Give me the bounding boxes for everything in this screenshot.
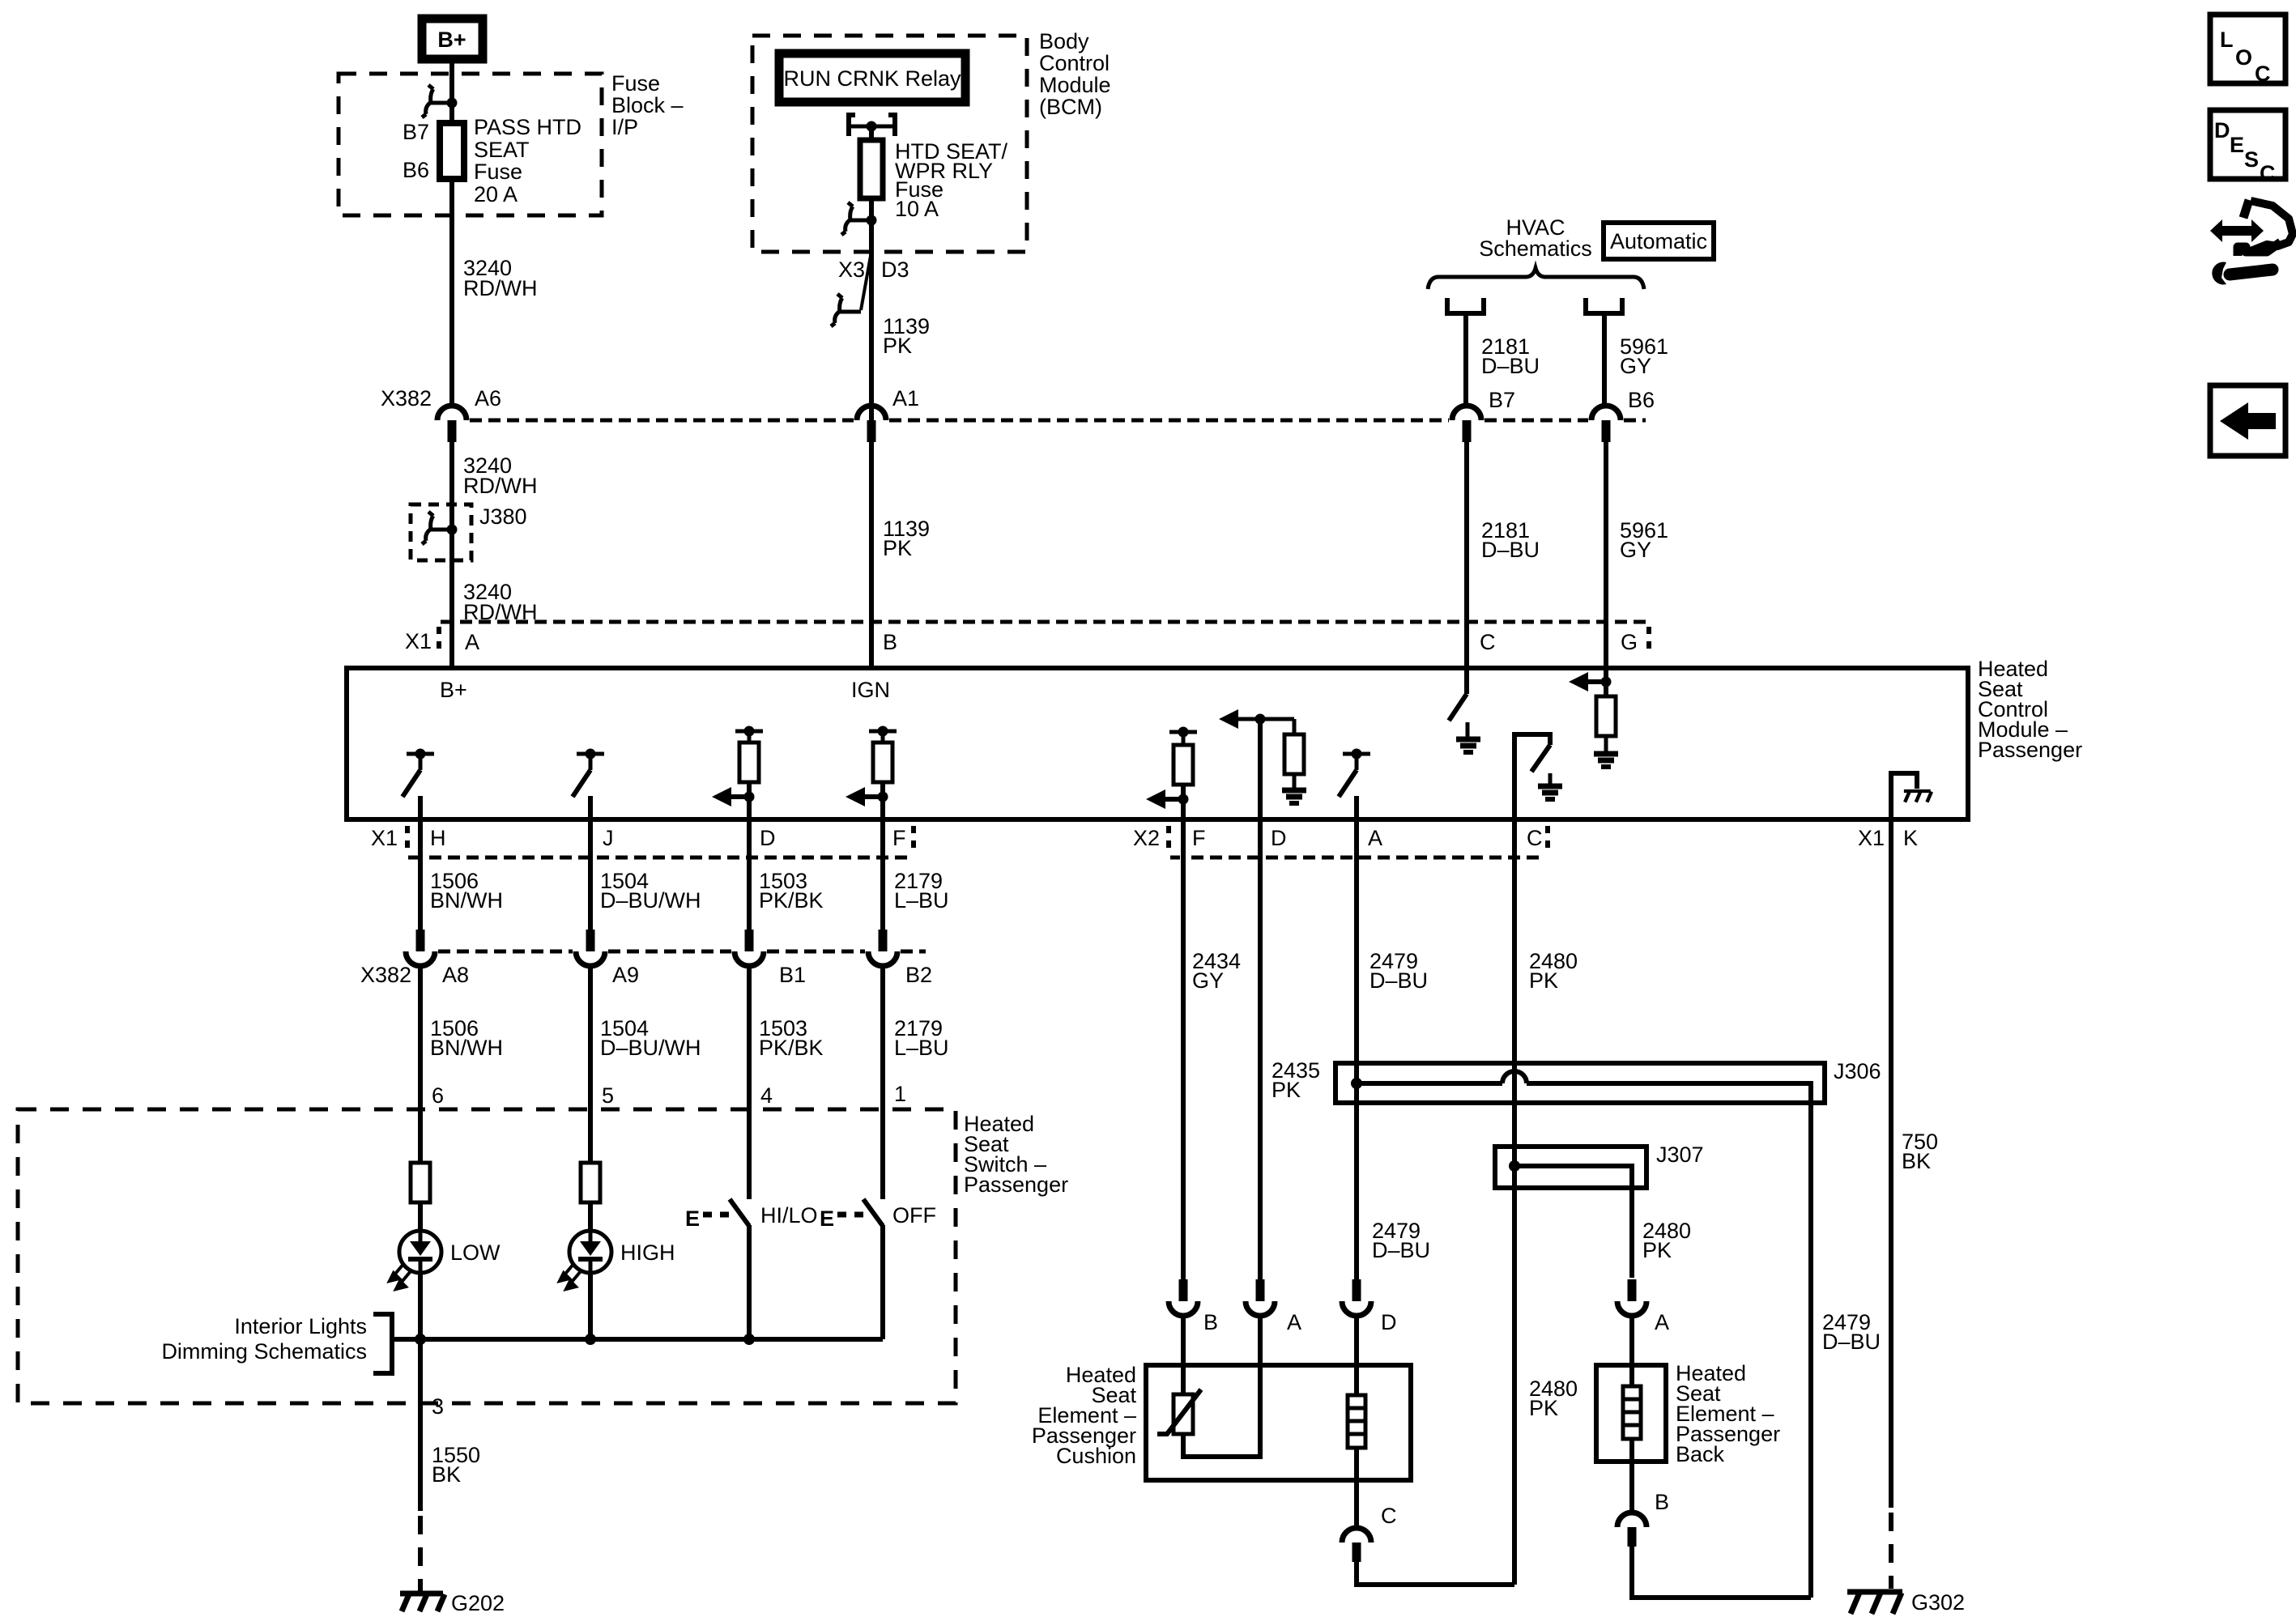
wire cushion D through heating element xyxy=(1354,1315,1359,1395)
svg-text:X382: X382 xyxy=(381,386,432,411)
label 2479 D-BU (right riser) xyxy=(1822,1310,1881,1354)
module pin C internal: switch to ground xyxy=(1449,668,1480,752)
svg-text:B2: B2 xyxy=(905,963,932,987)
label Body Control Module (BCM) xyxy=(1039,29,1111,119)
label 2181 D-BU xyxy=(1481,334,1540,378)
label 3240 RD/WH xyxy=(463,453,537,498)
svg-text:Automatic: Automatic xyxy=(1610,229,1707,253)
connector B2 xyxy=(868,930,897,966)
svg-text:D–BU/WH: D–BU/WH xyxy=(600,888,701,913)
wire fuse down to connector A6 xyxy=(449,179,454,406)
wire cushion C to 2480 riser xyxy=(1357,1562,1514,1585)
wire back element to B connector xyxy=(1629,1439,1634,1513)
svg-text:3: 3 xyxy=(432,1394,444,1419)
C colon mark xyxy=(1545,826,1550,852)
clip terminal at fuse top xyxy=(422,85,458,117)
label 1503 PK/BK xyxy=(759,1016,824,1060)
wire 2480 PK (X2-C down) xyxy=(1512,819,1517,1585)
wire H to A8 xyxy=(418,819,423,930)
svg-text:D: D xyxy=(2214,118,2230,143)
svg-text:RUN CRNK Relay: RUN CRNK Relay xyxy=(783,66,961,91)
label 2479 D-BU xyxy=(1370,949,1428,993)
wire back B to J306 riser xyxy=(1632,1547,1811,1598)
module X2 pin F internal: resistor and arrow xyxy=(1146,727,1197,820)
svg-text:C: C xyxy=(1480,630,1496,654)
wire fuse down through BCM edge xyxy=(869,198,874,420)
svg-text:D–BU: D–BU xyxy=(1372,1238,1430,1262)
svg-text:A6: A6 xyxy=(475,386,501,411)
svg-text:E: E xyxy=(820,1206,834,1231)
svg-text:L: L xyxy=(2220,28,2234,52)
dashed wire to G202 xyxy=(418,1516,423,1592)
svg-text:D–BU/WH: D–BU/WH xyxy=(600,1036,701,1060)
svg-text:L–BU: L–BU xyxy=(894,888,949,913)
label 5961 GY xyxy=(1620,518,1668,562)
svg-text:4: 4 xyxy=(760,1083,773,1108)
connector A6 xyxy=(437,406,466,442)
wire D to B1 xyxy=(747,819,752,930)
label 1504 D-BU/WH xyxy=(600,869,701,913)
label 2480 PK (below J307) xyxy=(1642,1219,1691,1262)
label 2434 GY xyxy=(1192,949,1241,993)
svg-text:X382: X382 xyxy=(360,963,411,987)
svg-text:D–BU: D–BU xyxy=(1481,354,1540,378)
wire J to A9 xyxy=(588,819,593,930)
svg-text:1: 1 xyxy=(894,1082,906,1106)
wire relay to fuse xyxy=(869,126,874,140)
svg-text:X2: X2 xyxy=(1133,826,1160,850)
label 3240 RD/WH xyxy=(463,256,537,300)
svg-text:D–BU: D–BU xyxy=(1370,968,1428,993)
resistor in switch wire 5 xyxy=(581,1163,600,1202)
svg-text:B: B xyxy=(883,630,897,654)
icon LOC box xyxy=(2210,15,2285,86)
wire 2434 GY (X2-F to cushion B) xyxy=(1181,819,1186,1279)
svg-text:D: D xyxy=(1271,826,1287,850)
thermistor xyxy=(1157,1389,1201,1434)
wire LED LOW to bus xyxy=(418,1273,423,1403)
label 750 BK xyxy=(1902,1130,1938,1173)
svg-text:SEAT: SEAT xyxy=(474,138,530,162)
svg-text:Module: Module xyxy=(1039,73,1111,97)
label 1139 PK xyxy=(883,314,930,358)
clip below fuse xyxy=(841,202,877,235)
heating element back xyxy=(1623,1386,1641,1439)
svg-text:E: E xyxy=(2230,133,2244,157)
G colon mark xyxy=(1646,627,1651,654)
svg-text:GY: GY xyxy=(1620,538,1651,562)
svg-text:J380: J380 xyxy=(479,504,527,529)
dashed wire to G302 xyxy=(1889,1513,1893,1589)
svg-text:RD/WH: RD/WH xyxy=(463,276,537,300)
label HVAC Schematics xyxy=(1479,215,1592,261)
svg-text:20 A: 20 A xyxy=(474,182,518,206)
module pin K internal: chassis ground xyxy=(1891,773,1932,819)
label 1506 BN/WH xyxy=(430,1016,503,1060)
svg-text:5: 5 xyxy=(602,1083,614,1108)
interior lights dimming bracket xyxy=(373,1314,392,1373)
svg-text:B6: B6 xyxy=(403,158,429,182)
fuse PASS HTD SEAT 20A xyxy=(440,123,464,179)
label 1504 D-BU/WH xyxy=(600,1016,701,1060)
HVAC stub left xyxy=(1447,298,1484,313)
svg-text:J: J xyxy=(603,826,614,850)
wire A9 down xyxy=(588,966,593,1163)
label 2479 D-BU (below J306) xyxy=(1372,1219,1430,1262)
svg-text:Fuse: Fuse xyxy=(611,71,660,96)
svg-text:B+: B+ xyxy=(437,28,466,52)
svg-text:D–BU: D–BU xyxy=(1481,538,1540,562)
resistor in switch wire 6 xyxy=(411,1163,430,1202)
wire thermistor to A xyxy=(1183,1315,1260,1457)
wire B1 down xyxy=(747,966,752,1199)
wire 2479 D-BU (X2-A to cushion D) xyxy=(1354,819,1359,1279)
X3 D3 inline connector kink and clip xyxy=(831,256,871,326)
dashed connector line X382 row xyxy=(470,419,1646,423)
icon pointer and wrench xyxy=(2210,200,2293,285)
module X2 pin D internal: arrow, resistor to ground xyxy=(1219,709,1306,819)
B+ power terminal box xyxy=(422,19,483,59)
module switch pin H xyxy=(403,749,434,820)
wire B7 to module pin C xyxy=(1464,442,1469,668)
svg-text:J306: J306 xyxy=(1834,1059,1881,1083)
svg-text:S: S xyxy=(2244,147,2259,172)
X382 row dashed line xyxy=(438,950,926,954)
heating element cushion xyxy=(1348,1395,1365,1448)
connector B7 xyxy=(1452,406,1481,442)
splice J307 xyxy=(1495,1147,1646,1278)
svg-text:PK: PK xyxy=(1529,968,1558,993)
svg-text:C: C xyxy=(1381,1504,1397,1528)
wire HVAC-B7 down xyxy=(1463,313,1468,406)
splice J306 xyxy=(1335,1063,1825,1598)
relay RUN CRNK Relay box xyxy=(779,53,965,102)
svg-text:G: G xyxy=(1621,630,1638,654)
connector back B xyxy=(1617,1513,1646,1547)
Automatic box xyxy=(1604,223,1714,259)
svg-text:PK: PK xyxy=(1272,1078,1301,1102)
switch HI/LO xyxy=(685,1199,749,1339)
svg-text:HIGH: HIGH xyxy=(620,1240,675,1265)
wire element to C connector xyxy=(1354,1448,1359,1528)
module X2 pin C internal: loop, switch to ground xyxy=(1514,734,1562,819)
svg-text:Cushion: Cushion xyxy=(1056,1444,1136,1468)
svg-text:Back: Back xyxy=(1676,1442,1725,1466)
svg-text:B: B xyxy=(1655,1490,1669,1514)
Heated Seat Element - Passenger Cushion box xyxy=(1146,1365,1411,1480)
wire A8 down xyxy=(418,966,423,1163)
svg-text:HI/LO: HI/LO xyxy=(760,1203,818,1228)
wire resistor to LED HIGH xyxy=(588,1202,593,1232)
label Heated Seat Switch - Passenger xyxy=(964,1112,1068,1197)
svg-text:Schematics: Schematics xyxy=(1479,236,1592,261)
switch OFF xyxy=(820,1199,883,1339)
label 2480 PK xyxy=(1529,949,1578,993)
module output pin F: resistor and arrow xyxy=(846,726,897,820)
label 2435 PK xyxy=(1272,1058,1320,1102)
label 2181 D-BU xyxy=(1481,518,1540,562)
svg-text:G202: G202 xyxy=(451,1591,505,1615)
svg-text:D–BU: D–BU xyxy=(1822,1330,1881,1354)
connector A9 xyxy=(576,930,605,966)
svg-text:L–BU: L–BU xyxy=(894,1036,949,1060)
svg-text:BK: BK xyxy=(432,1462,461,1487)
svg-text:A: A xyxy=(1368,826,1382,850)
svg-text:RD/WH: RD/WH xyxy=(463,474,537,498)
label 1506 BN/WH xyxy=(430,869,503,913)
X1 colon mark xyxy=(405,826,410,852)
svg-text:C: C xyxy=(2260,161,2276,185)
wire A1 to module pin B xyxy=(869,442,874,668)
wire 750 BK (K pin down) xyxy=(1889,819,1893,1508)
svg-text:Passenger: Passenger xyxy=(964,1172,1068,1197)
wire cushion B into box xyxy=(1181,1315,1186,1394)
wire LED HIGH to bus xyxy=(588,1273,593,1339)
svg-text:GY: GY xyxy=(1192,968,1224,993)
svg-text:Passenger: Passenger xyxy=(1978,738,2082,762)
HVAC stub right xyxy=(1586,298,1622,313)
svg-text:B7: B7 xyxy=(403,120,429,144)
wire HVAC-B6 down xyxy=(1602,313,1607,406)
svg-text:B+: B+ xyxy=(440,678,467,702)
label Heated Seat Element - Passenger Back xyxy=(1676,1361,1780,1466)
wire B6 to module pin G xyxy=(1604,442,1608,668)
svg-text:X1: X1 xyxy=(1858,826,1885,850)
svg-text:GY: GY xyxy=(1620,354,1651,378)
svg-text:G302: G302 xyxy=(1911,1590,1965,1615)
clip inside J380 xyxy=(422,512,458,544)
splice J380 dashed box xyxy=(411,504,471,560)
label 1550 BK xyxy=(432,1443,480,1487)
svg-text:LOW: LOW xyxy=(450,1240,501,1265)
connector cushion C xyxy=(1342,1528,1371,1562)
svg-text:B1: B1 xyxy=(779,963,806,987)
svg-text:PK: PK xyxy=(883,536,912,560)
svg-text:Fuse: Fuse xyxy=(474,160,522,184)
svg-text:PK/BK: PK/BK xyxy=(759,1036,824,1060)
svg-text:I/P: I/P xyxy=(611,115,638,139)
svg-text:J307: J307 xyxy=(1656,1143,1704,1167)
label 2480 PK (left of back element) xyxy=(1529,1377,1578,1420)
svg-text:10 A: 10 A xyxy=(895,197,939,221)
Heated Seat Element - Passenger Back box xyxy=(1596,1365,1666,1462)
svg-text:Control: Control xyxy=(1039,51,1110,75)
svg-text:PK/BK: PK/BK xyxy=(759,888,824,913)
wire F to B2 xyxy=(880,819,885,930)
svg-text:B6: B6 xyxy=(1628,388,1655,412)
LED HIGH indicator xyxy=(560,1231,611,1289)
module pin G internal: arrow, resistor, ground xyxy=(1569,668,1618,767)
svg-text:K: K xyxy=(1903,826,1918,850)
svg-text:B7: B7 xyxy=(1489,388,1515,412)
label 1503 PK/BK xyxy=(759,869,824,913)
connector A8 xyxy=(406,930,435,966)
svg-text:PK: PK xyxy=(1529,1396,1558,1420)
connector cushion A xyxy=(1246,1279,1275,1316)
svg-text:A8: A8 xyxy=(442,963,469,987)
Heated Seat Control Module box xyxy=(347,668,1968,819)
connector B6 xyxy=(1591,406,1621,442)
svg-text:A: A xyxy=(465,630,479,654)
icon DESC box xyxy=(2210,110,2285,185)
HVAC brace xyxy=(1428,268,1644,289)
label PASS HTD SEAT Fuse 20 A xyxy=(474,115,581,206)
ground G202 xyxy=(400,1594,445,1611)
svg-text:D3: D3 xyxy=(881,257,909,282)
svg-text:IGN: IGN xyxy=(851,678,890,702)
svg-text:Body: Body xyxy=(1039,29,1089,53)
wire A6 to J380 xyxy=(449,442,454,668)
svg-text:BK: BK xyxy=(1902,1149,1931,1173)
svg-text:E: E xyxy=(685,1206,700,1231)
svg-text:PASS HTD: PASS HTD xyxy=(474,115,581,139)
svg-text:C: C xyxy=(1527,826,1543,850)
connector A1 xyxy=(857,406,886,442)
svg-text:F: F xyxy=(1192,826,1206,850)
label 2179 L-BU xyxy=(894,1016,949,1060)
wire 2435 PK (X2-D to cushion A) xyxy=(1258,819,1263,1279)
label Heated Seat Element - Passenger Cushion xyxy=(1032,1363,1137,1468)
module output pin D: resistor and arrow xyxy=(712,726,763,820)
svg-text:X1: X1 xyxy=(371,826,398,850)
connector B1 xyxy=(735,930,764,966)
label Heated Seat Control Module - Passenger xyxy=(1978,657,2082,762)
LED LOW indicator xyxy=(390,1231,441,1289)
connector cushion B xyxy=(1169,1279,1198,1316)
connector back A xyxy=(1617,1279,1646,1316)
label HTD SEAT/ WPR RLY Fuse 10 A xyxy=(895,139,1008,221)
wire B2 down xyxy=(880,966,885,1199)
F colon mark xyxy=(911,826,916,852)
svg-text:Dimming Schematics: Dimming Schematics xyxy=(161,1339,367,1364)
svg-text:O: O xyxy=(2235,45,2252,70)
connector cushion D xyxy=(1342,1279,1371,1316)
X1-H row dashed line xyxy=(408,856,913,860)
label 3240 RD/WH xyxy=(463,580,537,624)
wire from B+ to fuse xyxy=(449,59,454,123)
svg-text:A1: A1 xyxy=(892,386,919,411)
svg-text:A9: A9 xyxy=(612,963,639,987)
label 5961 GY xyxy=(1620,334,1668,378)
X1 connector row dashed line xyxy=(441,620,1646,624)
svg-text:A: A xyxy=(1655,1310,1669,1334)
svg-text:F: F xyxy=(892,826,906,850)
X1 colon mark xyxy=(437,627,441,654)
Body Control Module dashed box xyxy=(752,36,1027,252)
module switch pin J xyxy=(573,749,604,820)
svg-text:6: 6 xyxy=(432,1083,444,1108)
svg-text:D: D xyxy=(760,826,776,850)
module X2 pin A internal: switch xyxy=(1339,749,1370,820)
wire back A into box xyxy=(1629,1315,1634,1386)
X2 row dashed line xyxy=(1170,856,1543,860)
ground G302 xyxy=(1847,1592,1902,1614)
wire 3 below switch box xyxy=(418,1403,423,1511)
icon back arrow box xyxy=(2210,385,2285,456)
Heated Seat Switch dashed box xyxy=(18,1109,956,1403)
label 2179 L-BU xyxy=(894,869,949,913)
label 1139 PK xyxy=(883,517,930,560)
wire resistor to LED LOW xyxy=(418,1202,423,1232)
svg-text:Block –: Block – xyxy=(611,93,684,117)
svg-text:PK: PK xyxy=(883,334,912,358)
svg-text:D: D xyxy=(1381,1310,1397,1334)
svg-text:BN/WH: BN/WH xyxy=(430,888,503,913)
svg-text:C: C xyxy=(2255,62,2271,86)
svg-text:(BCM): (BCM) xyxy=(1039,95,1102,119)
svg-text:X3: X3 xyxy=(838,257,865,282)
svg-text:PK: PK xyxy=(1642,1238,1672,1262)
svg-text:H: H xyxy=(430,826,446,850)
X2 colon mark xyxy=(1166,826,1171,852)
fuse HTD SEAT/WPR RLY 10A xyxy=(860,140,883,198)
label Interior Lights Dimming Schematics xyxy=(161,1314,367,1364)
svg-text:OFF: OFF xyxy=(892,1203,936,1228)
svg-text:B: B xyxy=(1203,1310,1218,1334)
svg-text:X1: X1 xyxy=(405,629,432,653)
common bus in switch xyxy=(392,1334,883,1345)
label Fuse Block - I/P xyxy=(611,71,684,139)
svg-text:Interior Lights: Interior Lights xyxy=(234,1314,367,1338)
svg-text:A: A xyxy=(1287,1310,1301,1334)
svg-text:BN/WH: BN/WH xyxy=(430,1036,503,1060)
relay contact bracket xyxy=(849,115,895,136)
fuse block dashed box (Fuse Block - I/P) xyxy=(339,74,602,215)
